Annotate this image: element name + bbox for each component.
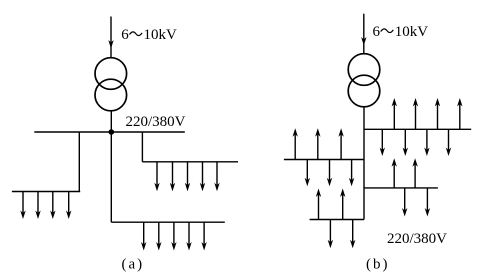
- svg-text:(b): (b): [366, 257, 390, 272]
- transformer T2 secondary winding (b): [348, 75, 380, 107]
- load arrow a-B1: [143, 222, 145, 244]
- load arrow a-R4: [202, 162, 204, 186]
- svg-text:10kV: 10kV: [395, 24, 429, 40]
- load arrow b-BLd1: [329, 220, 331, 243]
- load arrow a-R1: [156, 162, 158, 186]
- load arrow b-MRd2: [426, 188, 428, 211]
- wire: left distribution line (a): [12, 191, 80, 193]
- wire: top-right trunk line (b): [364, 128, 471, 130]
- load arrow a-L1: [22, 192, 24, 214]
- svg-text:220/380V: 220/380V: [387, 231, 447, 247]
- label: 6~10kV (b): [373, 24, 429, 40]
- load arrow b-Lu2: [317, 134, 319, 159]
- load arrow a-R5: [216, 162, 218, 186]
- load arrow a-B3: [173, 222, 175, 244]
- transformer T2 primary winding (b): [348, 54, 380, 86]
- label: 6~10kV (a): [121, 27, 177, 43]
- junction dot on bus (a): [109, 129, 115, 135]
- wire: bottom-left trunk line (b): [310, 219, 364, 221]
- load arrow b-TRd2: [404, 129, 406, 150]
- load arrow b-BLu1: [318, 195, 320, 220]
- load arrow b-MRu2: [414, 164, 416, 188]
- wire: trunk vertical (b): [363, 107, 365, 220]
- load arrow b-TRd1: [381, 129, 383, 150]
- load arrow b-TRu3: [437, 104, 439, 129]
- wire: mid-right trunk line (b): [364, 187, 438, 189]
- svg-text:10kV: 10kV: [144, 27, 178, 43]
- load arrow b-TRd3: [426, 129, 428, 150]
- wire: left trunk line (b): [284, 159, 364, 161]
- load arrow a-R3: [187, 162, 189, 186]
- wire: left branch drop (a): [78, 132, 80, 192]
- load arrow a-R2: [172, 162, 174, 186]
- wire: main vertical from transformer to bottom branch (a): [110, 111, 112, 222]
- arrowhead: feed direction (a): [108, 40, 113, 49]
- arrowhead: feed direction (b): [361, 37, 366, 46]
- wire: right distribution line (a): [142, 161, 238, 163]
- load arrow b-TRd4: [448, 129, 450, 150]
- load arrow b-Ld1: [306, 160, 308, 181]
- wire: incoming 6-10kV feeder (b): [363, 14, 365, 54]
- transformer T1 primary winding (a): [95, 58, 127, 90]
- wire: incoming 6-10kV feeder (a): [110, 17, 112, 58]
- svg-text:6: 6: [373, 24, 381, 40]
- wire: 220/380V bus (a): [34, 131, 185, 133]
- load arrow a-B5: [203, 222, 205, 244]
- load arrow b-MRd1: [404, 188, 406, 211]
- load arrow b-Ld2: [329, 160, 331, 181]
- wire: bottom distribution line (a): [111, 221, 225, 223]
- load arrow a-L4: [68, 192, 70, 214]
- wire: right branch drop (a): [141, 132, 143, 162]
- load arrow a-L2: [37, 192, 39, 214]
- load arrow b-TRu4: [459, 104, 461, 129]
- load arrow a-L3: [52, 192, 54, 214]
- load arrow a-B4: [188, 222, 190, 244]
- transformer T1 secondary winding (a): [95, 79, 127, 111]
- load arrow a-B2: [158, 222, 160, 244]
- load arrow b-BLu2: [342, 195, 344, 220]
- svg-text:6: 6: [121, 27, 129, 43]
- load arrow b-Lu1: [294, 134, 296, 159]
- svg-text:(a): (a): [122, 257, 145, 272]
- load arrow b-BLd2: [352, 220, 354, 243]
- load arrow b-TRu2: [415, 104, 417, 129]
- load arrow b-TRu1: [393, 104, 395, 129]
- load arrow b-Ld3: [351, 160, 353, 181]
- load arrow b-MRu1: [393, 164, 395, 188]
- load arrow b-Lu3: [340, 134, 342, 159]
- svg-text:220/380V: 220/380V: [126, 114, 186, 130]
